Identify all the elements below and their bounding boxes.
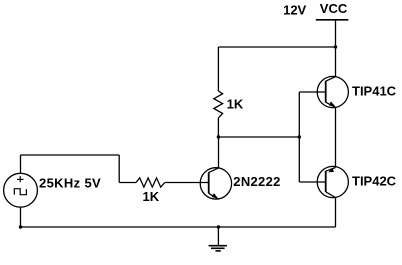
svg-text:25KHz 5V: 25KHz 5V — [39, 175, 101, 190]
svg-text:1K: 1K — [227, 97, 244, 112]
wire: Q1 collector up to junction — [218, 137, 220, 168]
wire: output node between emitters — [335, 108, 337, 168]
power VCC bar — [316, 19, 349, 21]
svg-text:VCC: VCC — [320, 1, 348, 16]
transistor Q3 TIP42C — [317, 166, 348, 197]
wire: signal line to resistor R1 — [119, 182, 136, 184]
wire: source bottom lead — [20, 207, 22, 227]
wire: Q3 collector down to bottom rail — [335, 198, 337, 228]
svg-text:2N2222: 2N2222 — [233, 174, 280, 189]
wire: top-left horizontal run — [21, 154, 120, 156]
node: junction collector / R2 — [217, 135, 220, 138]
ground — [209, 227, 227, 251]
resistor R1 1K (series) — [136, 178, 165, 187]
node: VCC junction dot — [334, 45, 337, 48]
wire: VCC vertical down to Q2 collector — [335, 20, 337, 77]
resistor R2 1K (pull-up) — [214, 91, 223, 118]
wire: bottom rail — [21, 226, 336, 228]
wire: Q2 base lead — [299, 91, 325, 93]
wire: top rail to VCC junction — [218, 46, 335, 48]
source V1 25KHz 5V — [4, 173, 38, 207]
wire: R2 bottom lead — [217, 118, 219, 137]
wire: vertical drop to signal line — [118, 155, 120, 183]
node: ground junction dot — [217, 225, 220, 228]
wire: resistor R1 to Q1 base — [165, 182, 209, 184]
transistor Q1 2N2222 — [200, 168, 231, 200]
wire: Q3 base lead — [299, 181, 325, 183]
svg-text:TIP42C: TIP42C — [352, 173, 397, 188]
svg-text:TIP41C: TIP41C — [352, 83, 397, 98]
svg-text:1K: 1K — [143, 189, 160, 204]
wire: base bus vertical — [298, 92, 300, 182]
svg-text:12V: 12V — [283, 2, 306, 17]
wire: source top lead — [20, 155, 22, 174]
node: base bus junction dot — [298, 135, 301, 138]
node: source bottom corner dot — [19, 225, 22, 228]
transistor Q2 TIP41C — [317, 76, 348, 107]
wire: R2 top lead — [217, 47, 219, 91]
wire: mid horizontal to base bus — [218, 136, 299, 138]
